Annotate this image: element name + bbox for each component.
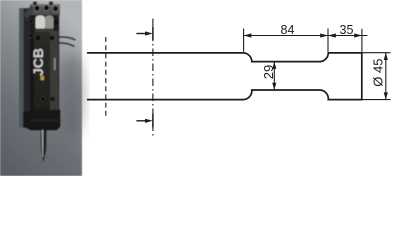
svg-text:JCB: JCB xyxy=(30,48,46,76)
svg-text:35: 35 xyxy=(340,23,354,37)
svg-text:Ø 45: Ø 45 xyxy=(370,59,385,87)
svg-text:29: 29 xyxy=(261,65,276,79)
svg-text:84: 84 xyxy=(281,23,295,37)
